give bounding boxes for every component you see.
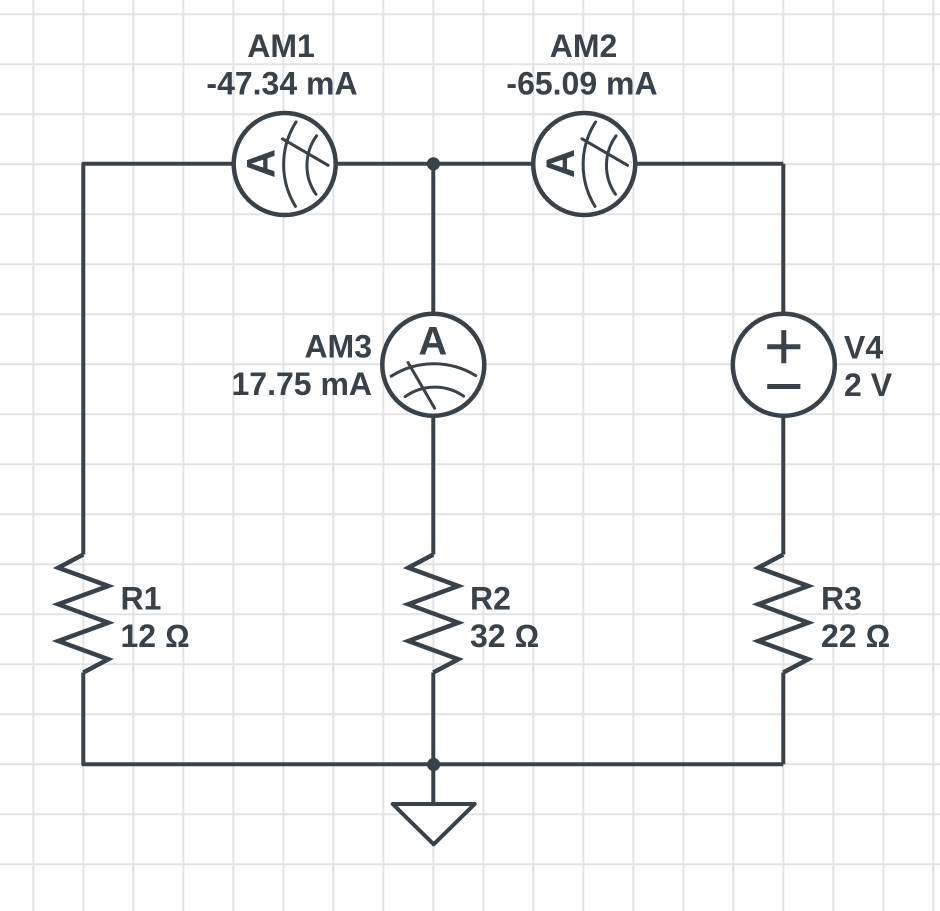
svg-text:22 Ω: 22 Ω [821,618,890,654]
svg-text:17.75 mA: 17.75 mA [231,366,372,402]
svg-text:2 V: 2 V [844,367,893,403]
svg-text:V4: V4 [844,330,883,366]
svg-text:R1: R1 [121,581,162,617]
svg-text:R3: R3 [821,581,862,617]
svg-text:32 Ω: 32 Ω [470,618,539,654]
svg-text:AM1: AM1 [247,28,315,64]
svg-text:AM3: AM3 [304,329,372,365]
svg-text:12 Ω: 12 Ω [121,618,190,654]
svg-text:R2: R2 [470,581,511,617]
svg-text:-47.34 mA: -47.34 mA [206,66,357,102]
svg-text:-65.09 mA: -65.09 mA [506,66,657,102]
svg-text:AM2: AM2 [550,28,618,64]
